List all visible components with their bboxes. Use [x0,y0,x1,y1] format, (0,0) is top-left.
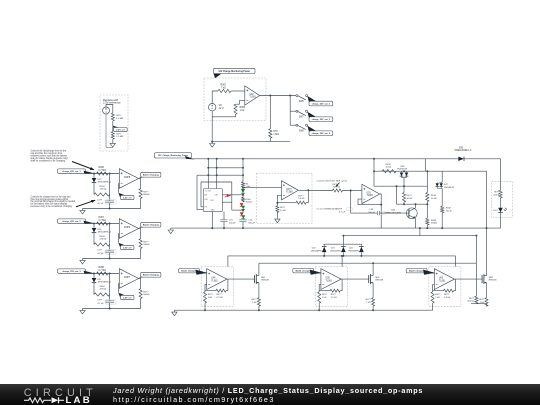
node label 12V Charge Monitoring Power [214,68,256,73]
svg-text:U05: U05 [326,278,331,280]
svg-text:C2 CC?2/MMX00DRB4TR: C2 CC?2/MMX00DRB4TR [317,209,343,211]
svg-text:0.7 MΩ: 0.7 MΩ [99,170,107,172]
svg-text:6.2 kΩ: 6.2 kΩ [331,297,337,299]
svg-text:2.5V_ref: 2.5V_ref [123,297,132,299]
svg-text:CMP5: CMP5 [124,177,131,179]
wire output [139,229,141,239]
wire [231,182,233,210]
switch SW8 [296,124,298,126]
op-amp CMP7 [119,269,138,289]
svg-text:D0?: D0? [494,210,499,212]
CircuitLab logo [0,384,113,405]
svg-text:Replace with: Replace with [103,98,119,102]
svg-text:Controls 555/TOUT SER speed: Controls 555/TOUT SER speed [317,180,348,183]
node Bat1 Charging input label [179,269,200,273]
wire main rail [192,158,426,160]
wire [106,114,113,147]
svg-text:D20: D20 [312,248,317,250]
svg-text:1 kΩ: 1 kΩ [208,297,213,299]
wire [86,173,120,175]
ground [82,309,84,311]
node 2.5V_ref [120,245,134,249]
wire [455,279,457,291]
svg-text:R038: R038 [431,220,437,222]
svg-text:500kΩ: 500kΩ [431,223,438,225]
wire [232,209,243,211]
svg-text:D30: D30 [459,147,464,149]
resistor R 500k output [139,189,142,199]
wire bottom of top block [212,141,290,143]
wire [212,91,218,104]
wire rail 235 [344,235,476,237]
svg-text:4.7 µF: 4.7 µF [98,303,105,305]
svg-text:TL081: TL081 [249,97,256,99]
svg-text:1.5 MΩ: 1.5 MΩ [116,136,123,138]
wire block bottom [83,208,141,210]
wire supply drop [341,256,343,267]
wire feedback [205,285,216,291]
svg-text:BSS138: BSS138 [489,280,497,282]
LED D red 2 [240,212,244,216]
svg-text:R0??: R0?? [469,298,475,300]
wire output [341,278,369,280]
wire minus to 2.5V_ref [117,234,120,243]
svg-text:6.2 kΩ: 6.2 kΩ [444,297,450,299]
wire [211,117,213,142]
svg-text:D27: D27 [98,279,103,281]
wire [343,189,362,191]
svg-text:500 Ω: 500 Ω [494,194,500,196]
diode pair D41 1N4148 [441,171,443,182]
wire LED chain [242,159,244,182]
wire rail 256 [228,255,456,257]
resistor R feedback 6.2k [216,289,226,292]
wire [242,209,244,212]
node 2.5V_ref [120,195,134,199]
svg-text:D21: D21 [331,248,336,250]
svg-text:1 kΩ: 1 kΩ [366,302,371,304]
svg-text:C1??: C1?? [97,200,103,202]
svg-text:V0: V0 [219,104,223,107]
svg-text:R0??: R0?? [208,294,214,296]
resistor R 500k output [139,289,142,299]
svg-text:D40: D40 [401,166,406,168]
svg-text:R0??: R0?? [217,294,223,296]
svg-text:R036: R036 [431,195,437,197]
footer title line [113,386,423,395]
wire [471,303,487,305]
wire [93,233,95,245]
resistor R038 500k [426,218,429,225]
svg-text:TL080: TL080 [286,192,293,194]
op-amp timer IC U01 555 [203,189,222,212]
capacitor C10 500uF left [220,219,227,221]
LED D green 2 [241,206,245,210]
svg-text:R0??: R0?? [298,196,304,198]
svg-text:10 kΩ: 10 kΩ [407,198,413,200]
resistor R 1k to gnd [318,291,320,292]
resistor R 500 LED [500,181,502,190]
svg-text:R068: R068 [99,267,105,269]
svg-text:1 MΩ: 1 MΩ [273,134,279,136]
resistor R067 7k [218,89,231,92]
svg-text:M01: M01 [261,277,266,279]
wire [424,159,426,171]
diode D26 [93,224,95,229]
svg-text:470 kΩ: 470 kΩ [100,189,107,191]
switch SW6 [296,95,298,97]
resistor R feedback 6.2k [444,289,454,292]
current probe red [227,194,231,197]
op-amp U05 TL081 [321,269,341,290]
wire supply drop [227,256,229,267]
wire output [227,278,255,280]
svg-text:470 kΩ: 470 kΩ [100,289,107,291]
svg-text:Q40: Q40 [391,210,396,212]
wire block bottom [83,258,141,260]
svg-text:CMP6: CMP6 [124,227,131,229]
mosfet M02 BSS138 [368,275,370,283]
svg-text:D22: D22 [349,248,354,250]
wire feedback [319,285,330,291]
svg-text:6.2 kΩ: 6.2 kΩ [217,297,223,299]
switch SW7 [296,110,298,112]
svg-text:SW7: SW7 [299,117,305,119]
wire drain [258,263,260,275]
svg-text:500 µF: 500 µF [248,222,255,224]
wire [106,105,113,114]
svg-text:500kΩ: 500kΩ [143,294,150,296]
wire source [486,283,488,298]
svg-text:R0??: R0?? [366,299,372,301]
wire supply drop [455,256,457,267]
wire [243,187,282,189]
dashed box middle op-amp [257,173,312,223]
wire IC top pins [207,159,209,189]
svg-text:2.5V_ref: 2.5V_ref [116,129,125,131]
svg-text:5.0 kΩ: 5.0 kΩ [298,198,305,200]
svg-text:U06: U06 [439,278,444,280]
wire [93,283,95,295]
svg-text:R0??: R0?? [280,207,286,209]
diode D22 bottom row [360,244,362,246]
svg-text:R0??: R0?? [494,192,500,194]
svg-text:PMEG4010EJ,-2: PMEG4010EJ,-2 [455,150,473,152]
LED D indicator [500,198,502,208]
resistor R 1k below mosfet [485,298,488,307]
resistor R 5k feedback [296,201,306,204]
svg-text:R4: R4 [246,184,250,186]
svg-text:500 kΩ: 500 kΩ [333,187,340,189]
wire [223,212,225,220]
resistor R 10k to ground [276,203,278,206]
mosfet M03 BSS138 [481,275,483,283]
wire cap node [350,191,352,214]
node 2.5V_ref flag [113,126,120,131]
svg-text:2.5V_ref: 2.5V_ref [123,247,132,249]
svg-text:MMBT4401-NPN: MMBT4401-NPN [385,212,402,214]
resistor R 1k to gnd [432,291,434,292]
svg-text:U01: U01 [210,200,213,202]
svg-text:R0??: R0?? [143,192,149,194]
svg-text:U02: U02 [249,94,254,96]
logo resistor glyph [24,398,51,403]
resistor R068 1k [234,104,237,114]
node charge_25V_out_2 [307,112,316,121]
diode D30 PMEG4010EJ [425,158,458,160]
svg-text:1 kΩ: 1 kΩ [252,302,257,304]
svg-text:1N914(HHC-2: 1N914(HHC-2 [330,251,344,253]
wire feedback [277,195,296,202]
svg-text:R034: R034 [100,186,106,188]
svg-text:CMP7: CMP7 [124,277,131,279]
resistor R060 201k [242,197,245,202]
wire [374,185,427,187]
wire block bottom [83,308,141,310]
svg-text:1N4148-W: 1N4148-W [397,169,407,171]
wire diode row top [323,243,362,245]
svg-text:10 kΩ: 10 kΩ [280,210,286,212]
wire [200,272,207,274]
svg-text:1 kΩ: 1 kΩ [322,297,327,299]
svg-text:U0??: U0?? [286,189,292,191]
resistor R032 100 [441,188,443,206]
wire [109,174,111,201]
resistor R 1.5M lower [111,132,114,140]
svg-text:R0??: R0?? [331,294,337,296]
wire [307,190,309,202]
node Bat3 Charging input label [406,269,427,273]
svg-text:1 kΩ: 1 kΩ [480,302,485,304]
svg-text:R0??: R0?? [444,294,450,296]
logo diode glyph [52,397,59,403]
LED D green 1 [241,189,245,193]
wire minus to 2.5V_ref [117,284,120,293]
wire drain [372,263,374,275]
resistor R70 1M [269,96,271,129]
ground [211,142,213,144]
svg-text:SW6: SW6 [299,101,305,103]
wire bottom ground rail [174,309,433,311]
diode D21 bottom row [342,244,344,246]
svg-text:R0??: R0?? [479,299,485,301]
svg-text:4.7 µF: 4.7 µF [98,203,105,205]
voltage source V0 12V [209,104,216,111]
wire [112,139,114,141]
wire [197,175,203,209]
wire 555 area upper [208,167,243,169]
node Bat2 Charging input label [293,269,314,273]
svg-text:500kΩ: 500kΩ [143,194,150,196]
svg-text:470 kΩ: 470 kΩ [100,239,107,241]
wire [419,228,421,236]
wire middle ground rail [171,227,501,229]
op-amp CMP5 [119,169,138,189]
svg-text:D4?: D4? [444,184,449,186]
wire [500,212,502,228]
ground [170,228,172,230]
wire [109,224,111,251]
wire feedback [433,285,444,291]
resistor R feedback 6.2k [330,289,340,292]
svg-text:1N914(HHC-2: 1N914(HHC-2 [311,251,325,253]
svg-text:12 V: 12 V [219,107,224,110]
annotation arrow 2 [76,200,95,207]
node charge_25V_out_3 input label [58,269,86,273]
op-amp U06 TL081 [434,269,454,290]
dashed box Bat2 charging buffer [315,267,347,307]
svg-text:TL081: TL081 [326,280,333,282]
wire [109,274,111,301]
ground [112,142,114,144]
svg-text:SW8: SW8 [299,131,305,133]
svg-text:R0??: R0?? [322,294,328,296]
wire IC ground pin [211,212,213,229]
2.5V reference dashed box [100,95,128,151]
wire [427,272,434,274]
node Bat3 Charging output label [139,273,149,278]
wire [93,183,95,195]
wire rail 263 [259,262,477,264]
svg-text:1N4148-W: 1N4148-W [444,187,454,189]
svg-text:0.7 MΩ: 0.7 MΩ [99,220,107,222]
ground [173,310,175,312]
wire [380,212,409,214]
svg-text:M02: M02 [375,277,380,279]
svg-text:R067: R067 [221,85,227,87]
svg-text:1 kΩ: 1 kΩ [240,110,245,112]
resistor R 1k below mosfet [372,298,375,307]
wire [227,279,229,291]
svg-text:C1??: C1?? [97,250,103,252]
capacitor C10 500uF right [239,219,246,221]
wire [112,121,114,132]
svg-text:R067: R067 [99,217,105,219]
wire emitter [415,219,417,229]
svg-text:500 kΩ: 500 kΩ [467,301,474,303]
wire source [258,283,260,298]
svg-text:M03: M03 [489,277,494,279]
wire op-amp output [260,95,296,97]
svg-text:500 µF: 500 µF [229,222,236,224]
wire collector [415,204,417,208]
svg-text:R0??: R0?? [116,115,122,117]
op-amp U0 TL080 [282,181,299,200]
svg-text:1.5 MΩ: 1.5 MΩ [116,118,123,120]
svg-text:Controls the (dis)charge time: Controls the (dis)charge time for the [31,150,67,153]
svg-text:4.7 µF: 4.7 µF [339,211,346,213]
svg-text:2.5V_ref: 2.5V_ref [123,197,132,199]
svg-text:1N914(HHC-2: 1N914(HHC-2 [348,251,362,253]
svg-text:V+ RST: V+ RST [205,190,212,192]
svg-text:R068: R068 [240,107,246,109]
LED D red 1 [240,203,244,207]
svg-text:R034: R034 [100,236,106,238]
op-amp U04 TL081 [207,269,227,290]
wire [342,236,344,245]
dashed box Bat3 charging buffer [429,267,461,307]
svg-text:U04: U04 [211,278,216,280]
svg-text:TL081: TL081 [439,280,446,282]
svg-text:C1??: C1?? [97,300,103,302]
node charge_25V_out_3 [307,126,316,135]
capacitor C11 4.7uF [105,250,114,252]
resistor R4 1k [242,182,245,188]
svg-text:4.7 µF: 4.7 µF [98,253,105,255]
svg-text:C10: C10 [229,220,234,222]
wire [242,193,244,197]
dashed box 12V charge monitoring [204,78,266,121]
wire source [372,283,374,298]
node 2.5V_ref [120,295,134,299]
LED D green 3 [241,215,245,219]
svg-text:R0??: R0?? [407,195,413,197]
svg-text:R0??: R0?? [332,184,338,186]
diode D27 [93,274,95,279]
op-amp CMP6 [119,219,138,239]
svg-text:R0??: R0?? [435,294,441,296]
svg-text:R0??: R0?? [116,134,122,136]
svg-text:1 kΩ: 1 kΩ [435,297,440,299]
diode D20 bottom row [323,244,325,246]
node charge_25V_out_2 input label [58,219,86,223]
svg-text:C10: C10 [248,220,253,222]
wire [475,236,477,297]
ground [276,217,278,219]
wire [500,159,502,182]
svg-text:TL081: TL081 [367,195,374,197]
svg-text:100 Ω: 100 Ω [446,210,452,212]
wire output U03 [380,194,382,228]
resistor R 1k below mosfet [257,298,260,307]
node charge_25V_out_1 input label [58,169,86,173]
svg-text:Controls the charge time for t: Controls the charge time for the cap and [31,195,72,198]
wire IC out [222,194,243,196]
resistor R 500k right pair [475,296,478,304]
capacitor C40 500nF [376,211,378,215]
svg-text:D26: D26 [98,229,103,231]
svg-text:R0??: R0?? [251,299,257,301]
svg-text:R0??: R0?? [143,292,149,294]
resistor R 10k mid [403,186,405,192]
mosfet M01 BSS138 [254,275,256,283]
wire 555 area top [197,174,243,176]
svg-text:500kΩ: 500kΩ [143,244,150,246]
svg-text:R060: R060 [246,199,252,201]
wire output [139,179,141,189]
node charge_25V_out_1 [307,96,316,105]
wire output [298,189,332,191]
svg-text:10 kΩ: 10 kΩ [386,167,392,169]
op-amp U02 [245,86,260,105]
wire [231,90,245,92]
capacitor C10 4.7uF [105,200,114,202]
resistor R 1.5M upper [111,113,114,121]
wire [86,223,120,225]
wire [314,272,321,274]
node Bat1 Charging output label [139,173,149,178]
wire [201,181,232,183]
svg-text:C40: C40 [369,209,374,211]
wire minus feedback [236,101,245,105]
resistor R 500k output [139,239,142,249]
wire [341,279,343,291]
annotation arrow small [336,183,340,187]
svg-text:R066: R066 [99,167,105,169]
node label 12V_Charge_Monitoring_Power mid [155,153,192,158]
svg-text:R032: R032 [446,208,452,210]
svg-text:D25: D25 [98,179,103,181]
